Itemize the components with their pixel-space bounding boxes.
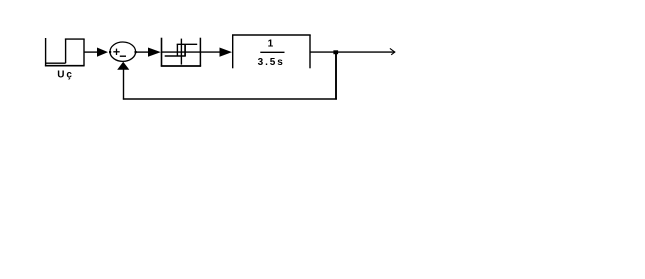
minus sign	[120, 55, 126, 57]
step waveform high level / top edge	[65, 38, 85, 40]
wire step to sum	[84, 51, 98, 53]
open output arrowhead	[390, 48, 395, 54]
transfer fcn block: left edge	[232, 35, 234, 68]
wire relay to transfer fcn	[200, 51, 220, 53]
feedback arrowhead into summing junction	[117, 62, 129, 70]
relay block: right edge	[199, 38, 201, 67]
step waveform rising edge	[65, 39, 67, 64]
relay icon: upper output level	[177, 43, 198, 45]
relay icon: left switching edge	[176, 44, 178, 56]
step source block Uç: right edge	[83, 39, 85, 66]
svg-text:3.5s: 3.5s	[258, 57, 285, 68]
port tick left of circle	[109, 51, 111, 53]
fraction bar	[260, 51, 284, 53]
relay block: left edge	[161, 38, 163, 67]
transfer fcn block: right edge	[309, 35, 311, 68]
feedback wire: right vertical segment	[335, 52, 337, 100]
summing junction circle	[110, 42, 136, 61]
relay block: bottom edge	[161, 65, 201, 67]
arrowhead step to sum	[97, 48, 108, 57]
step source block Uç: bottom edge	[45, 65, 85, 67]
junction node dot	[333, 50, 338, 54]
arrowhead relay to transfer fcn	[220, 48, 233, 57]
transfer fcn block: top edge	[232, 34, 311, 36]
relay icon: horizontal axis	[162, 51, 200, 53]
wire transfer fcn to junction	[310, 51, 334, 53]
feedback wire: left vertical segment	[123, 69, 125, 100]
svg-text:Uç: Uç	[57, 70, 74, 81]
step source block Uç: left edge	[45, 38, 47, 66]
svg-text:1: 1	[268, 38, 274, 49]
feedback wire: bottom horizontal segment	[123, 98, 337, 100]
port tick right of circle	[135, 51, 137, 53]
wire junction to output arrow	[338, 51, 395, 53]
plus sign	[113, 49, 119, 55]
arrowhead sum to relay	[148, 48, 161, 57]
relay icon: lower output level	[165, 55, 186, 57]
relay icon: right switching edge	[184, 44, 186, 56]
step waveform low level	[46, 62, 66, 64]
relay icon: vertical axis	[180, 39, 182, 65]
wire sum to relay	[136, 51, 149, 53]
